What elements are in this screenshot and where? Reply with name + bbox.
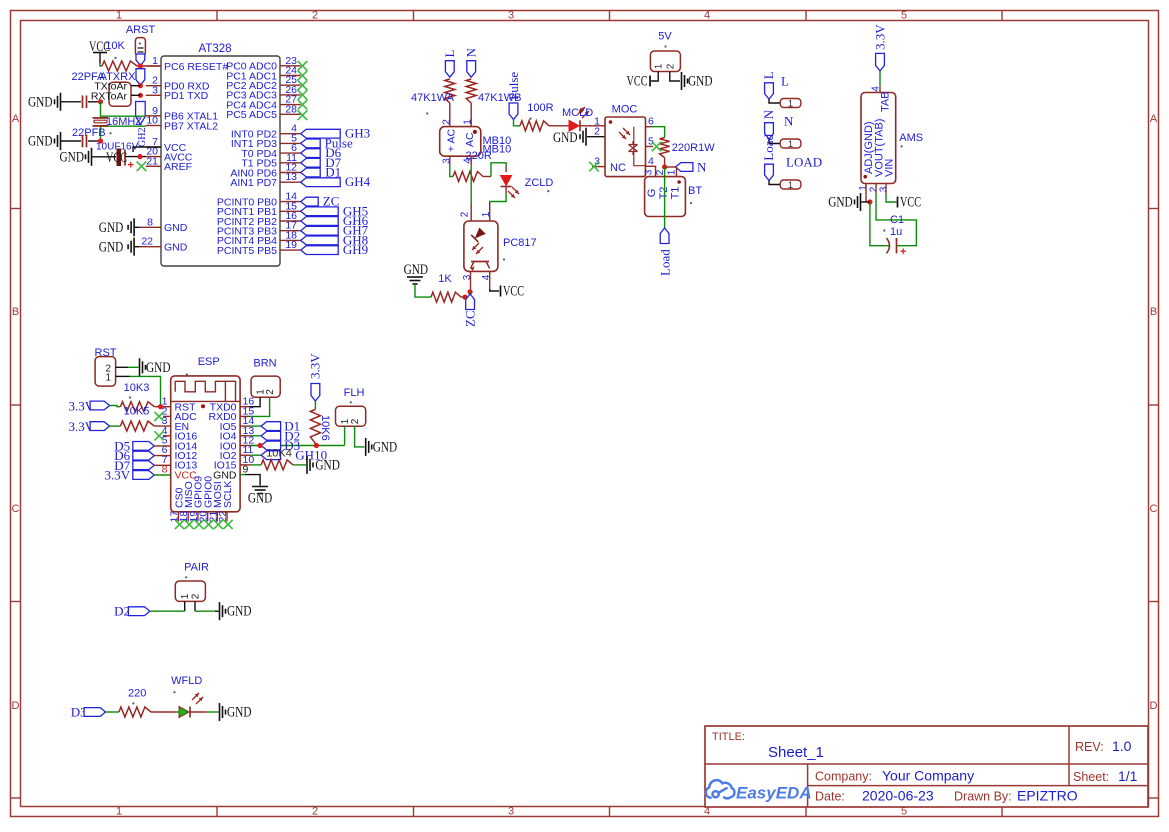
svg-text:A: A xyxy=(1150,113,1158,125)
svg-text:1: 1 xyxy=(858,185,869,191)
svg-text:Date:: Date: xyxy=(815,790,845,804)
svg-text:TITLE:: TITLE: xyxy=(712,731,745,743)
svg-text:PCINT5 PB5: PCINT5 PB5 xyxy=(217,245,277,257)
svg-text:SCLK: SCLK xyxy=(222,481,234,508)
svg-text:3.3V: 3.3V xyxy=(308,353,323,379)
svg-text:22PFB: 22PFB xyxy=(72,127,106,139)
svg-text:N: N xyxy=(464,48,479,58)
svg-text:+: + xyxy=(128,160,134,172)
svg-text:VCC: VCC xyxy=(900,195,921,211)
svg-text:ARST: ARST xyxy=(126,24,156,36)
svg-text:Load: Load xyxy=(658,249,673,276)
svg-text:L: L xyxy=(761,71,776,79)
svg-text:47K1WA: 47K1WA xyxy=(411,92,455,104)
svg-text:3: 3 xyxy=(441,158,452,164)
svg-text:B: B xyxy=(12,306,19,318)
svg-text:22: 22 xyxy=(217,511,229,523)
svg-text:AC: AC xyxy=(464,132,476,147)
svg-text:3: 3 xyxy=(508,10,514,22)
svg-text:1: 1 xyxy=(116,806,122,818)
svg-text:VCC: VCC xyxy=(627,74,648,90)
svg-text:1: 1 xyxy=(788,180,793,190)
svg-text:ZC: ZC xyxy=(463,310,478,327)
svg-text:21: 21 xyxy=(146,155,158,167)
svg-text:1: 1 xyxy=(788,99,793,109)
svg-text:+: + xyxy=(900,246,906,258)
svg-text:VCC: VCC xyxy=(106,150,127,166)
svg-text:8: 8 xyxy=(147,216,153,228)
svg-text:1: 1 xyxy=(105,373,111,384)
svg-text:GND: GND xyxy=(146,360,171,376)
svg-text:Your Company: Your Company xyxy=(882,768,974,784)
svg-text:GH4: GH4 xyxy=(345,174,371,189)
svg-text:3: 3 xyxy=(152,84,158,96)
svg-text:16MHZ: 16MHZ xyxy=(106,116,142,128)
svg-text:3.3V: 3.3V xyxy=(104,468,130,483)
svg-text:4: 4 xyxy=(704,10,710,22)
svg-text:220: 220 xyxy=(128,688,146,700)
svg-text:D: D xyxy=(1150,700,1158,712)
svg-text:GND: GND xyxy=(828,195,853,211)
svg-text:GND: GND xyxy=(315,458,340,474)
svg-text:2: 2 xyxy=(655,169,666,175)
svg-text:Load: Load xyxy=(761,133,776,160)
svg-text:4: 4 xyxy=(648,155,654,167)
svg-text:28: 28 xyxy=(285,103,297,115)
svg-text:BT: BT xyxy=(688,185,702,197)
svg-text:100R: 100R xyxy=(527,102,553,114)
svg-text:2: 2 xyxy=(312,10,318,22)
svg-text:AT328: AT328 xyxy=(198,43,231,55)
svg-text:2: 2 xyxy=(191,593,202,599)
svg-text:GND: GND xyxy=(688,74,713,90)
svg-text:GND: GND xyxy=(164,222,188,234)
svg-text:AREF: AREF xyxy=(164,161,192,173)
svg-text:4: 4 xyxy=(481,274,492,280)
svg-text:GND: GND xyxy=(248,491,273,507)
svg-text:4: 4 xyxy=(871,86,882,92)
svg-text:10K3: 10K3 xyxy=(124,382,150,394)
svg-text:GND: GND xyxy=(28,134,53,150)
svg-text:N: N xyxy=(761,109,776,119)
svg-text:PC817: PC817 xyxy=(503,237,537,249)
svg-text:BRN: BRN xyxy=(253,358,276,370)
svg-text:PC6 RESET#: PC6 RESET# xyxy=(164,61,228,73)
svg-text:1K: 1K xyxy=(438,273,452,285)
svg-text:1u: 1u xyxy=(890,226,902,238)
svg-text:WFLD: WFLD xyxy=(171,675,202,687)
svg-text:GND: GND xyxy=(404,262,429,278)
svg-text:19: 19 xyxy=(285,239,297,251)
svg-text:2: 2 xyxy=(441,119,452,125)
svg-text:AMS: AMS xyxy=(899,132,923,144)
svg-text:2: 2 xyxy=(350,418,361,424)
svg-text:GND: GND xyxy=(164,242,188,254)
svg-text:GH2: GH2 xyxy=(137,128,148,147)
svg-text:TAB: TAB xyxy=(879,91,891,112)
svg-text:1: 1 xyxy=(116,10,122,22)
svg-text:3: 3 xyxy=(879,186,890,192)
svg-text:RXToAr: RXToAr xyxy=(91,90,128,102)
svg-text:3: 3 xyxy=(508,806,514,818)
svg-text:1: 1 xyxy=(152,55,158,67)
svg-text:10K5: 10K5 xyxy=(124,406,150,418)
svg-text:LOAD: LOAD xyxy=(786,155,822,170)
svg-text:5V: 5V xyxy=(658,31,672,43)
svg-text:GND: GND xyxy=(28,95,53,111)
svg-text:VCC: VCC xyxy=(503,284,524,300)
svg-text:PC5 ADC5: PC5 ADC5 xyxy=(226,109,277,121)
svg-text:C: C xyxy=(12,503,20,515)
svg-text:10K4: 10K4 xyxy=(266,448,292,460)
svg-text:NC: NC xyxy=(610,162,626,174)
svg-text:3: 3 xyxy=(462,274,473,280)
svg-text:10: 10 xyxy=(146,115,158,127)
svg-text:MCLD: MCLD xyxy=(562,107,593,119)
svg-text:GND: GND xyxy=(227,705,252,721)
svg-text:2: 2 xyxy=(312,806,318,818)
svg-text:PAIR: PAIR xyxy=(184,562,209,574)
svg-text:2020-06-23: 2020-06-23 xyxy=(862,788,934,804)
svg-text:5: 5 xyxy=(648,136,654,148)
svg-text:1.0: 1.0 xyxy=(1112,738,1132,754)
svg-text:PD1 TXD: PD1 TXD xyxy=(164,90,209,102)
svg-text:1: 1 xyxy=(463,119,474,125)
svg-text:VIN: VIN xyxy=(884,159,896,177)
svg-text:220R: 220R xyxy=(466,150,492,162)
svg-text:GND: GND xyxy=(227,604,252,620)
svg-text:MOC: MOC xyxy=(612,104,638,116)
svg-text:2: 2 xyxy=(265,389,276,395)
svg-text:Sheet:: Sheet: xyxy=(1073,770,1109,784)
svg-text:GH9: GH9 xyxy=(343,242,368,257)
svg-text:Drawn By:: Drawn By: xyxy=(954,790,1012,804)
svg-text:6: 6 xyxy=(648,116,654,128)
svg-text:GND: GND xyxy=(373,440,398,456)
svg-text:L: L xyxy=(781,74,789,89)
svg-text:3.3V: 3.3V xyxy=(873,24,888,50)
svg-text:3: 3 xyxy=(644,169,655,175)
svg-text:5: 5 xyxy=(901,10,907,22)
svg-text:GND: GND xyxy=(99,220,124,236)
svg-text:ZCLD: ZCLD xyxy=(525,177,554,189)
svg-text:1: 1 xyxy=(788,139,793,149)
svg-text:EPIZTRO: EPIZTRO xyxy=(1017,788,1078,804)
svg-text:N: N xyxy=(784,114,794,129)
svg-text:G: G xyxy=(646,189,658,198)
svg-text:C: C xyxy=(1150,503,1158,515)
svg-text:D: D xyxy=(12,700,20,712)
svg-text:Sheet_1: Sheet_1 xyxy=(768,744,824,761)
svg-text:1: 1 xyxy=(654,63,665,69)
svg-text:D2: D2 xyxy=(114,604,130,619)
svg-text:GND: GND xyxy=(60,150,85,166)
svg-text:13: 13 xyxy=(285,171,297,183)
svg-text:10K: 10K xyxy=(105,40,125,52)
svg-text:L: L xyxy=(442,50,457,58)
svg-text:N: N xyxy=(697,160,707,175)
svg-text:C1: C1 xyxy=(890,214,904,226)
svg-text:1: 1 xyxy=(667,169,678,175)
svg-text:2: 2 xyxy=(665,63,676,69)
svg-text:FLH: FLH xyxy=(344,387,365,399)
svg-text:+ AC: + AC xyxy=(445,129,457,152)
svg-text:Pulse: Pulse xyxy=(506,72,521,100)
svg-text:2: 2 xyxy=(594,126,600,138)
svg-text:220R1W: 220R1W xyxy=(672,142,715,154)
svg-text:1/1: 1/1 xyxy=(1118,768,1138,784)
svg-text:22: 22 xyxy=(141,236,153,248)
svg-text:PB7 XTAL2: PB7 XTAL2 xyxy=(164,120,218,132)
svg-text:B: B xyxy=(1150,306,1157,318)
svg-text:REV:: REV: xyxy=(1075,740,1104,754)
svg-text:GND: GND xyxy=(99,239,124,255)
svg-text:GND: GND xyxy=(213,469,237,481)
svg-text:AIN1 PD7: AIN1 PD7 xyxy=(230,177,277,189)
svg-text:EasyEDA: EasyEDA xyxy=(736,784,812,803)
svg-text:GND: GND xyxy=(553,130,578,146)
svg-text:Company:: Company: xyxy=(815,770,872,784)
svg-text:1: 1 xyxy=(481,211,492,217)
svg-text:T1: T1 xyxy=(670,187,682,200)
svg-text:A: A xyxy=(12,113,20,125)
svg-text:10K6: 10K6 xyxy=(319,415,331,441)
svg-text:ESP: ESP xyxy=(198,356,220,368)
svg-text:2: 2 xyxy=(460,211,471,217)
